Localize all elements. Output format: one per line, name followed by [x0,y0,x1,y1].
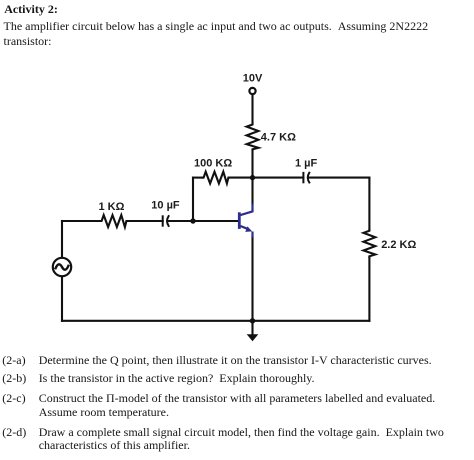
ac source [53,258,71,276]
resistor 100 KΩ [203,172,229,184]
question 2-c [2,392,468,419]
wire collector node to resistor 100 KΩ [193,177,203,179]
resistor 1 KΩ [101,215,127,227]
question 2-d [2,426,468,453]
wire capacitor 1 µF to right corner [308,177,369,179]
wire right corner down to resistor 2.2 KΩ [368,178,370,230]
wire resistor 4.7 KΩ to collector node [251,150,253,178]
wire capacitor 10 µF to base node [167,220,193,222]
bottom wire [62,320,369,322]
svg-text:1 KΩ: 1 KΩ [99,201,125,213]
junction collector node [250,175,255,180]
wire base node to transistor base [193,220,238,222]
question 2-a [2,354,468,367]
junction emitter bottom node [250,318,255,323]
emitter wire down to bottom node [251,237,253,321]
svg-text:1 µF: 1 µF [295,157,318,169]
wire resistor 100 KΩ to collector node [229,177,253,179]
svg-text:10V: 10V [243,72,263,84]
supply terminal 10V [249,88,255,94]
ground stem [251,321,253,336]
wire input top left [62,220,101,222]
junction base node [190,218,195,223]
resistor 2.2 KΩ [364,230,376,257]
svg-text:2.2 KΩ: 2.2 KΩ [381,239,416,251]
capacitor 10 µF [163,216,169,226]
resistor 4.7 KΩ [247,124,259,151]
wire terminal to resistor 4.7 KΩ [251,95,253,124]
intro paragraph [4,19,444,49]
svg-text:100 KΩ: 100 KΩ [194,157,232,169]
capacitor 1 µF [303,173,309,183]
ground arrowhead [247,334,259,341]
collector wire down to transistor [251,178,253,204]
wire resistor 2.2 KΩ to bottom right corner [368,257,370,321]
svg-text:10 µF: 10 µF [151,199,180,211]
transistor 2N2222 [239,204,252,238]
wire resistor 1 KΩ to capacitor 10 µF [127,220,163,222]
title "Activity 2:" [4,2,58,17]
left vertical wire to ac source [61,221,63,257]
transistor emitter arrowhead [245,226,252,232]
svg-text:4.7 KΩ: 4.7 KΩ [261,131,296,143]
wire feedback corner down to base node [192,178,194,221]
question 2-b [2,372,468,385]
wire collector node to capacitor 1 µF [253,177,304,179]
wire ac source to bottom left corner [61,277,63,321]
